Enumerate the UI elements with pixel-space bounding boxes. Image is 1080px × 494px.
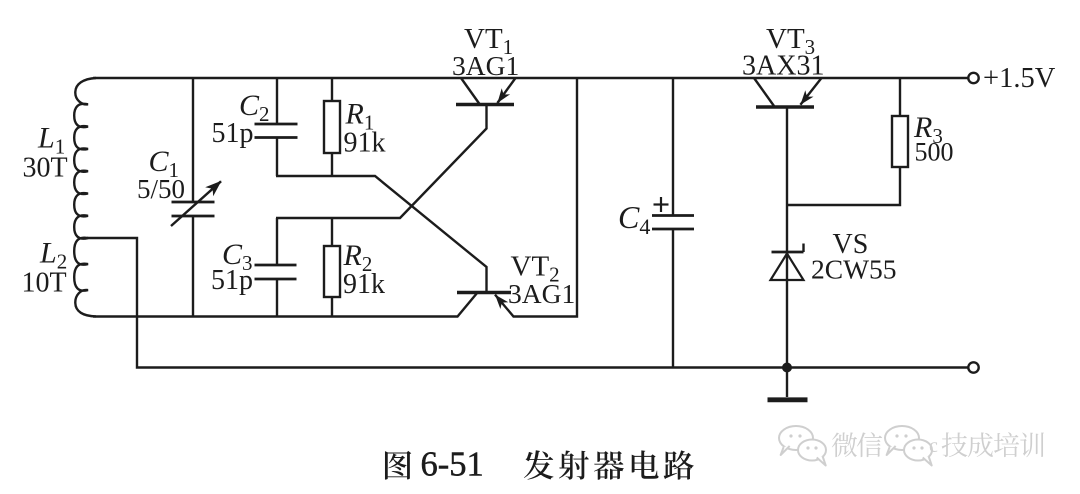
svg-text:5/50: 5/50 bbox=[137, 174, 185, 204]
svg-text:2CW55: 2CW55 bbox=[811, 254, 897, 285]
svg-text:+1.5V: +1.5V bbox=[983, 63, 1056, 94]
svg-text:3AG1: 3AG1 bbox=[452, 50, 519, 81]
svg-text:91k: 91k bbox=[343, 269, 385, 300]
svg-text:3AX31: 3AX31 bbox=[742, 51, 824, 82]
svg-text:6-51: 6-51 bbox=[421, 446, 484, 484]
svg-text:30T: 30T bbox=[23, 153, 68, 184]
svg-text:91k: 91k bbox=[344, 128, 386, 159]
svg-text:c: c bbox=[929, 435, 938, 457]
svg-text:51p: 51p bbox=[212, 118, 254, 149]
svg-text:51p: 51p bbox=[211, 265, 253, 296]
svg-text:500: 500 bbox=[915, 138, 954, 167]
svg-text:3AG1: 3AG1 bbox=[508, 278, 575, 309]
svg-text:10T: 10T bbox=[22, 268, 67, 299]
